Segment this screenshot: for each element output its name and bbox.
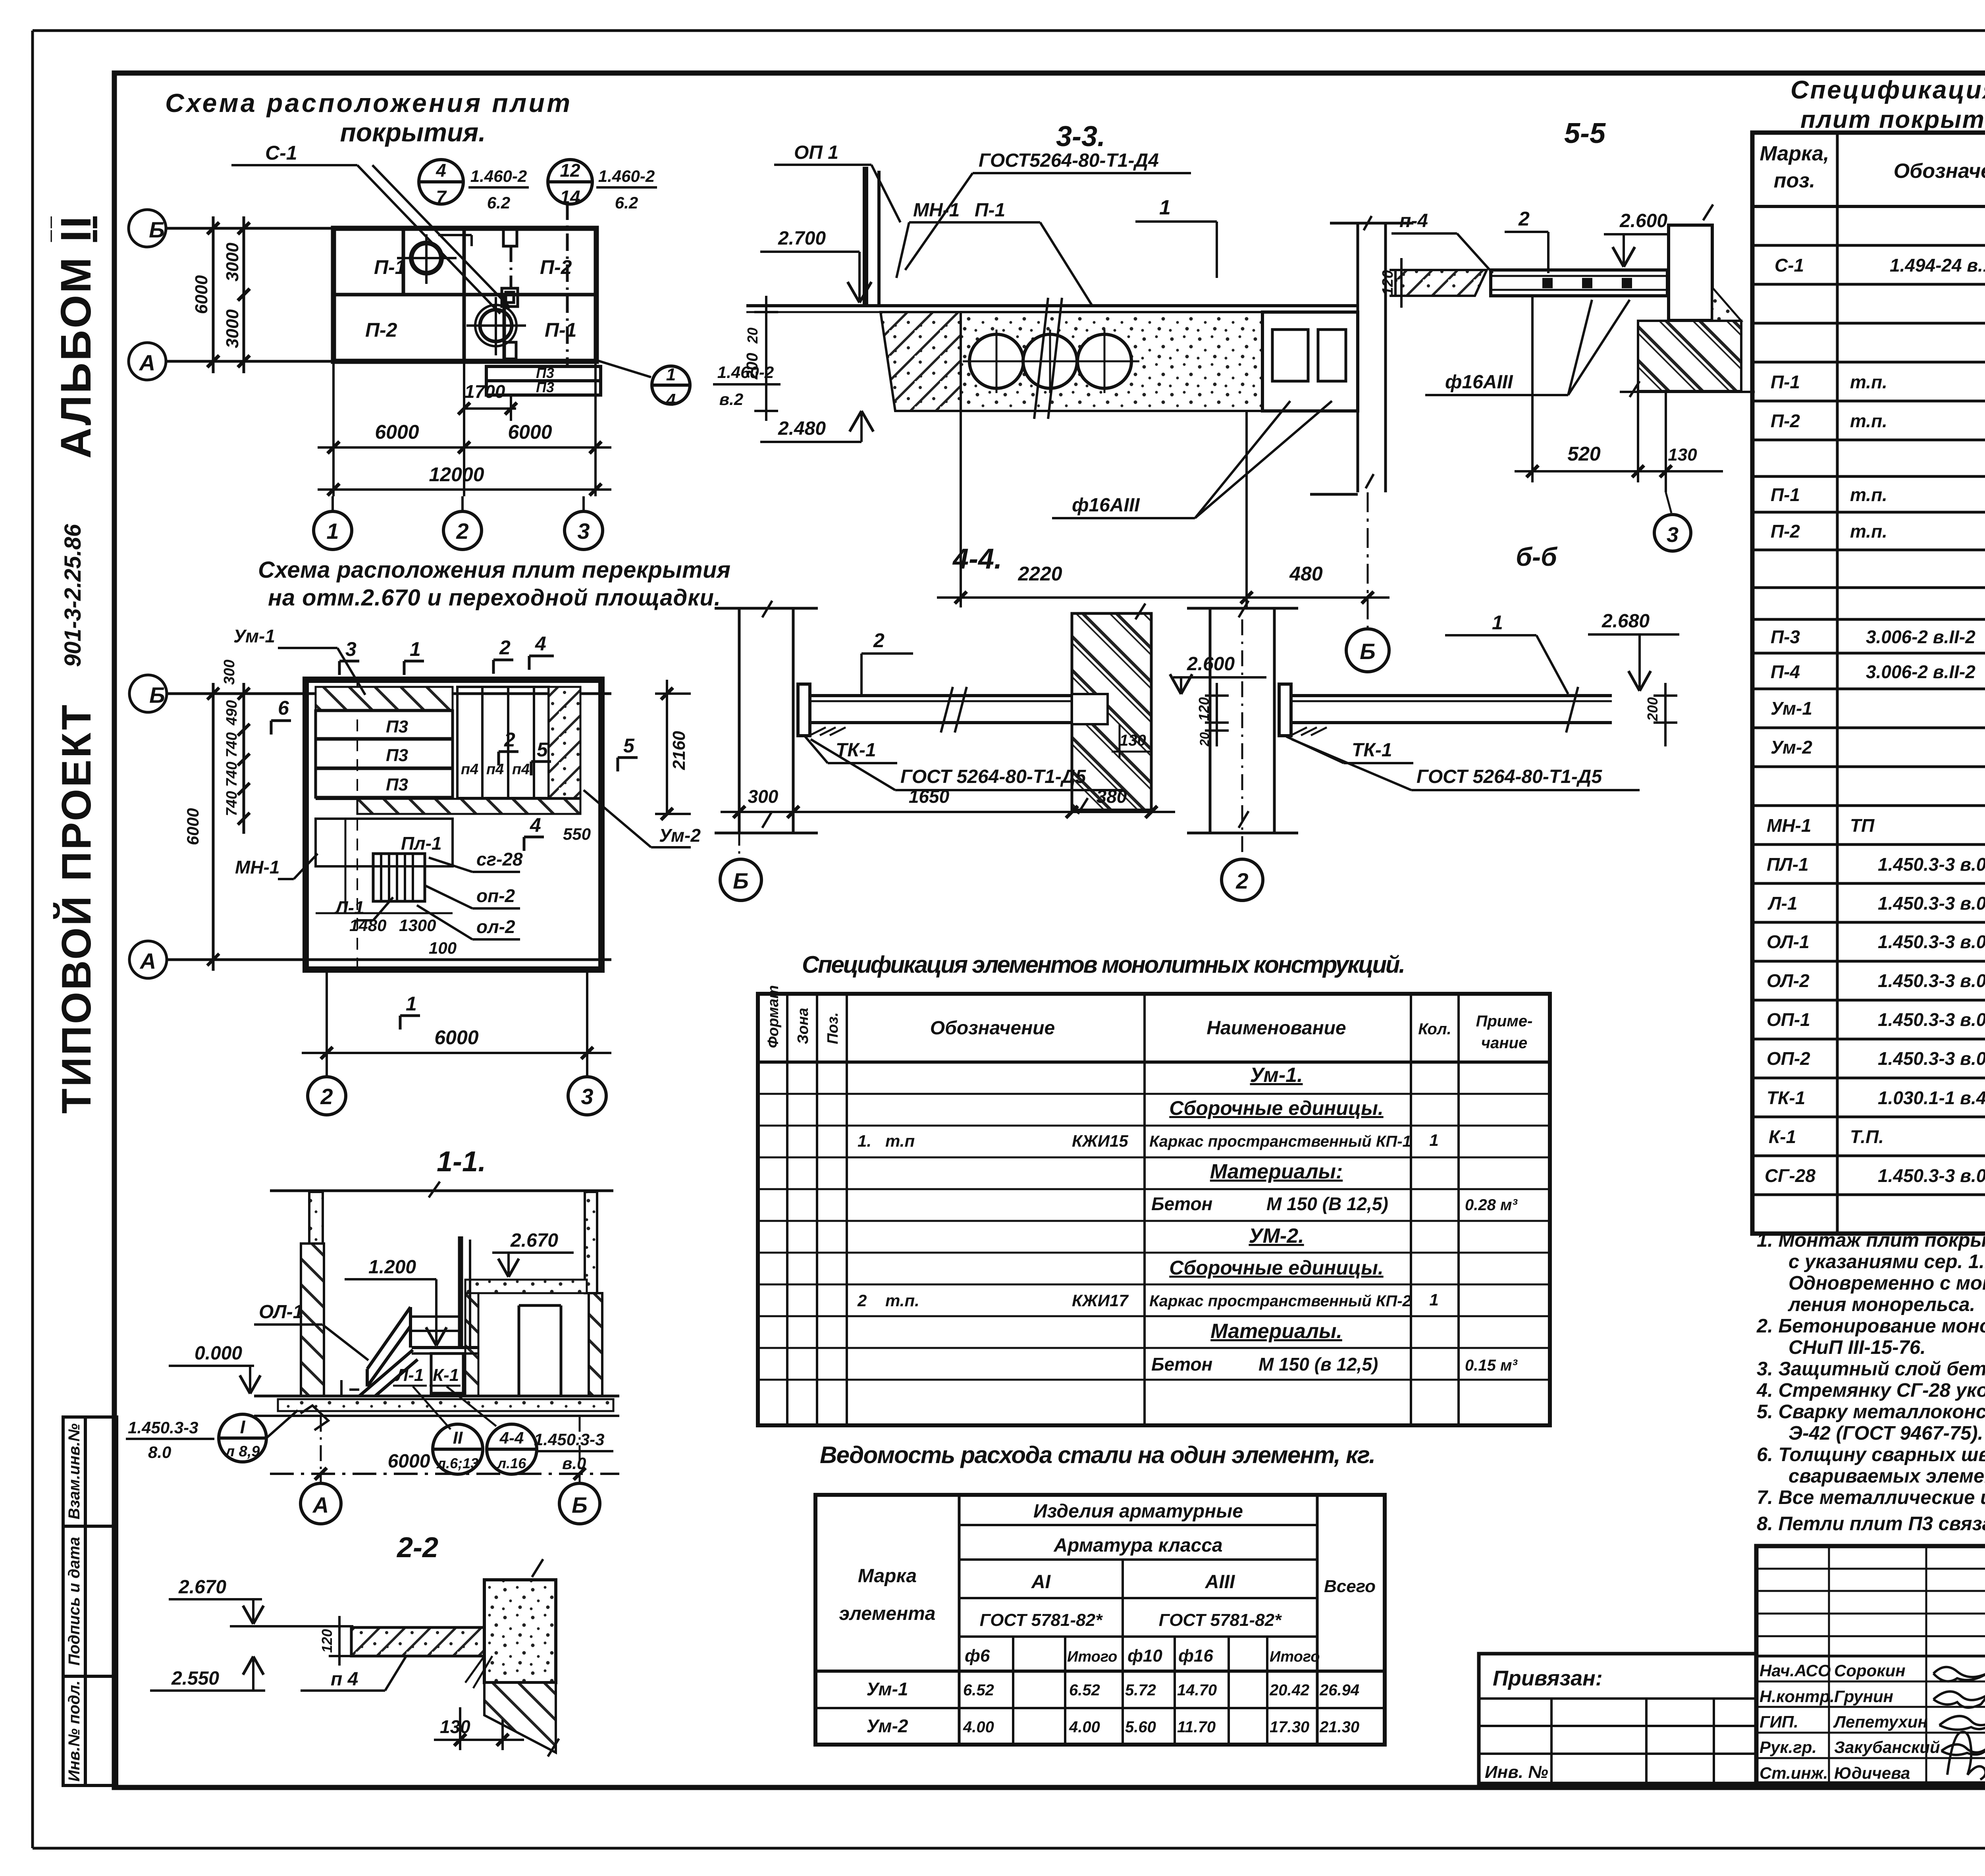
svg-text:5.72: 5.72 bbox=[1125, 1681, 1156, 1699]
svg-text:Материалы.: Материалы. bbox=[1210, 1320, 1342, 1343]
svg-text:1: 1 bbox=[1492, 611, 1503, 634]
svg-text:2: 2 bbox=[873, 629, 885, 652]
svg-text:1.460-2: 1.460-2 bbox=[598, 167, 655, 185]
svg-text:П-1: П-1 bbox=[374, 256, 406, 278]
svg-text:5: 5 bbox=[623, 735, 635, 757]
svg-text:1.450.3-3 в.0;1;2: 1.450.3-3 в.0;1;2 bbox=[1878, 1048, 1985, 1069]
svg-text:5.60: 5.60 bbox=[1125, 1718, 1156, 1736]
svg-text:740: 740 bbox=[224, 791, 240, 816]
svg-text:4: 4 bbox=[530, 814, 541, 836]
svg-text:П3: П3 bbox=[536, 379, 554, 395]
svg-text:1.450.3-3: 1.450.3-3 bbox=[534, 1430, 604, 1449]
svg-text:п-4: п-4 bbox=[1399, 210, 1428, 231]
svg-text:Б: Б bbox=[572, 1492, 588, 1517]
svg-text:покрытия.: покрытия. bbox=[340, 118, 486, 147]
svg-text:2: 2 bbox=[857, 1291, 867, 1310]
svg-text:12000: 12000 bbox=[429, 463, 484, 486]
svg-text:М 150 (в 12,5): М 150 (в 12,5) bbox=[1258, 1354, 1378, 1375]
svg-text:т.п.: т.п. bbox=[1850, 372, 1887, 392]
svg-text:4-4: 4-4 bbox=[499, 1429, 524, 1447]
svg-text:ОП-1: ОП-1 bbox=[1767, 1009, 1810, 1030]
svg-text:Лепетухин: Лепетухин bbox=[1833, 1712, 1928, 1731]
svg-text:т.п.: т.п. bbox=[885, 1291, 919, 1310]
svg-text:Итого: Итого bbox=[1067, 1648, 1117, 1665]
svg-text:1700: 1700 bbox=[464, 381, 505, 402]
svg-text:ф16АIII: ф16АIII bbox=[1445, 372, 1513, 393]
svg-text:6. Толщину сварных швов при: 6. Толщину сварных швов принимать по наи… bbox=[1757, 1444, 1985, 1465]
svg-text:1: 1 bbox=[326, 519, 339, 544]
svg-text:26.94: 26.94 bbox=[1319, 1681, 1359, 1699]
svg-text:Сборочные единицы.: Сборочные единицы. bbox=[1169, 1097, 1383, 1119]
svg-text:2.550: 2.550 bbox=[171, 1668, 219, 1689]
svg-text:6.2: 6.2 bbox=[615, 193, 638, 212]
svg-text:8. Петли плит П3 связать: 8. Петли плит П3 связать проволокой ⌀4мм… bbox=[1757, 1513, 1985, 1535]
svg-text:1650: 1650 bbox=[909, 786, 950, 807]
svg-text:2220: 2220 bbox=[1018, 563, 1062, 585]
svg-text:6000: 6000 bbox=[183, 808, 202, 845]
svg-text:6.52: 6.52 bbox=[963, 1681, 994, 1699]
svg-text:4-4.: 4-4. bbox=[952, 543, 1002, 575]
svg-text:С-1: С-1 bbox=[265, 142, 297, 164]
svg-text:ГОСТ5264-80-Т1-Д4: ГОСТ5264-80-Т1-Д4 bbox=[979, 150, 1159, 171]
svg-text:4.00: 4.00 bbox=[1069, 1718, 1100, 1736]
svg-text:П3: П3 bbox=[386, 775, 408, 794]
svg-text:КЖИ15: КЖИ15 bbox=[1072, 1132, 1128, 1150]
svg-text:Ум-2: Ум-2 bbox=[867, 1716, 908, 1736]
svg-text:Закубанский: Закубанский bbox=[1834, 1738, 1940, 1756]
svg-text:элемента: элемента bbox=[839, 1603, 936, 1624]
svg-text:I: I bbox=[240, 1417, 246, 1437]
svg-text:1: 1 bbox=[406, 993, 417, 1015]
svg-text:6.2: 6.2 bbox=[487, 193, 510, 212]
svg-text:1.450.3-3 в.0;1;2: 1.450.3-3 в.0;1;2 bbox=[1878, 931, 1985, 952]
svg-text:Ум-2: Ум-2 bbox=[1771, 737, 1812, 758]
svg-text:ф16АIII: ф16АIII bbox=[1072, 495, 1140, 516]
svg-text:Б: Б bbox=[1360, 639, 1376, 664]
svg-text:520: 520 bbox=[1567, 443, 1601, 465]
svg-text:2: 2 bbox=[456, 519, 468, 544]
svg-text:1.200: 1.200 bbox=[368, 1257, 416, 1278]
svg-text:3.006-2 в.II-2: 3.006-2 в.II-2 bbox=[1866, 661, 1975, 682]
svg-text:поз.: поз. bbox=[1774, 169, 1815, 192]
svg-text:4: 4 bbox=[535, 632, 546, 655]
svg-text:П-2: П-2 bbox=[1771, 521, 1800, 542]
svg-text:П3: П3 bbox=[536, 365, 554, 381]
svg-text:Ст.инж.: Ст.инж. bbox=[1760, 1764, 1828, 1782]
svg-text:ПЛ-1: ПЛ-1 bbox=[1767, 854, 1809, 875]
svg-text:0.28 м³: 0.28 м³ bbox=[1465, 1196, 1518, 1214]
svg-text:1: 1 bbox=[1159, 196, 1171, 219]
svg-text:ОЛ-1: ОЛ-1 bbox=[259, 1301, 303, 1323]
svg-text:ГИП.: ГИП. bbox=[1760, 1712, 1798, 1731]
svg-text:0.15 м³: 0.15 м³ bbox=[1465, 1357, 1518, 1374]
svg-text:2.480: 2.480 bbox=[778, 418, 826, 439]
svg-text:Схема расположения плит перек: Схема расположения плит перекрытия bbox=[258, 557, 730, 583]
svg-text:Инв.№ подл.: Инв.№ подл. bbox=[66, 1681, 83, 1782]
svg-text:2. Бетонирование монолитных: 2. Бетонирование монолитных участков про… bbox=[1756, 1315, 1985, 1337]
svg-text:Б: Б bbox=[733, 868, 749, 893]
svg-text:3: 3 bbox=[577, 519, 590, 544]
svg-text:200: 200 bbox=[744, 353, 761, 380]
svg-text:УМ-2.: УМ-2. bbox=[1249, 1224, 1304, 1247]
svg-text:КЖИ17: КЖИ17 bbox=[1072, 1291, 1129, 1310]
svg-text:1.: 1. bbox=[858, 1132, 871, 1150]
svg-text:Грунин: Грунин bbox=[1834, 1687, 1893, 1706]
svg-text:плит покрытия , перекрытия: плит покрытия , перекрытия и переходной … bbox=[1800, 106, 1985, 133]
svg-text:л 8,9: л 8,9 bbox=[224, 1443, 260, 1460]
svg-text:П-2: П-2 bbox=[1771, 411, 1800, 431]
svg-text:8.0: 8.0 bbox=[148, 1443, 171, 1461]
svg-text:20: 20 bbox=[744, 328, 761, 344]
svg-text:1: 1 bbox=[1429, 1290, 1438, 1309]
svg-text:490: 490 bbox=[224, 700, 240, 725]
svg-text:Взам.инв.№: Взам.инв.№ bbox=[66, 1423, 83, 1519]
svg-text:5: 5 bbox=[537, 738, 548, 761]
svg-text:П3: П3 bbox=[386, 717, 408, 737]
svg-text:1.494-24 в.1.: 1.494-24 в.1. bbox=[1890, 255, 1985, 276]
svg-text:П-1: П-1 bbox=[1771, 484, 1800, 505]
svg-text:480: 480 bbox=[1289, 563, 1323, 585]
svg-text:Марка,: Марка, bbox=[1760, 142, 1829, 165]
svg-text:0.000: 0.000 bbox=[195, 1343, 242, 1364]
svg-text:П-2: П-2 bbox=[365, 319, 397, 341]
svg-text:оп-2: оп-2 bbox=[476, 885, 515, 906]
svg-text:1.030.1-1 в.4-1: 1.030.1-1 в.4-1 bbox=[1878, 1087, 1985, 1108]
svg-text:ГОСТ 5781-82*: ГОСТ 5781-82* bbox=[980, 1610, 1103, 1630]
svg-text:Бетон: Бетон bbox=[1151, 1193, 1212, 1214]
svg-text:П-4: П-4 bbox=[1771, 661, 1800, 682]
svg-text:Б: Б bbox=[149, 683, 165, 708]
svg-text:2.680: 2.680 bbox=[1601, 611, 1650, 632]
svg-text:380: 380 bbox=[1097, 786, 1127, 807]
svg-text:Э-42 (ГОСТ 9467-75).: Э-42 (ГОСТ 9467-75). bbox=[1788, 1423, 1983, 1444]
svg-text:К-1: К-1 bbox=[433, 1365, 459, 1385]
svg-text:1: 1 bbox=[666, 365, 676, 384]
svg-text:6000: 6000 bbox=[192, 275, 211, 314]
svg-text:1.450.3-3 в.0.1: 1.450.3-3 в.0.1 bbox=[1878, 1165, 1985, 1186]
svg-text:Наименование: Наименование bbox=[1206, 1018, 1346, 1039]
svg-text:3.006-2 в.II-2: 3.006-2 в.II-2 bbox=[1866, 627, 1975, 647]
svg-text:300: 300 bbox=[748, 786, 779, 807]
svg-text:7: 7 bbox=[436, 187, 447, 207]
svg-text:Спецификация элементов к сх: Спецификация элементов к схемам располож… bbox=[1790, 75, 1985, 104]
svg-text:300: 300 bbox=[221, 659, 238, 684]
svg-text:Каркас пространственный КП-1: Каркас пространственный КП-1 bbox=[1149, 1133, 1411, 1150]
svg-text:Привязан:: Привязан: bbox=[1493, 1666, 1603, 1690]
svg-text:100: 100 bbox=[429, 939, 457, 957]
svg-text:Н.контр.: Н.контр. bbox=[1760, 1687, 1835, 1706]
svg-text:1: 1 bbox=[1429, 1131, 1438, 1149]
svg-text:1. Монтаж плит покрытия и: 1. Монтаж плит покрытия и перекрытия вес… bbox=[1757, 1230, 1985, 1251]
svg-text:ГОСТ 5781-82*: ГОСТ 5781-82* bbox=[1159, 1610, 1282, 1630]
svg-text:Б: Б bbox=[149, 217, 165, 242]
svg-text:п 4: п 4 bbox=[331, 1669, 358, 1690]
svg-text:Приме-: Приме- bbox=[1476, 1012, 1533, 1030]
svg-text:6000: 6000 bbox=[434, 1026, 478, 1049]
svg-text:1: 1 bbox=[410, 638, 421, 660]
svg-text:т.п.: т.п. bbox=[1850, 521, 1887, 542]
svg-text:СГ-28: СГ-28 bbox=[1765, 1165, 1815, 1186]
svg-text:т.п: т.п bbox=[885, 1132, 915, 1150]
svg-text:Т.П.: Т.П. bbox=[1850, 1126, 1884, 1147]
svg-text:5. Сварку металлоконструкций: 5. Сварку металлоконструкций производить… bbox=[1757, 1401, 1985, 1423]
svg-text:Ведомость расхода стали на: Ведомость расхода стали на один элемент,… bbox=[820, 1442, 1376, 1468]
svg-text:Марка: Марка bbox=[858, 1566, 917, 1587]
svg-text:ОЛ-2: ОЛ-2 bbox=[1767, 970, 1810, 991]
svg-text:Спецификация элементов монол: Спецификация элементов монолитных констр… bbox=[802, 951, 1405, 978]
svg-text:2.600: 2.600 bbox=[1619, 210, 1667, 231]
svg-text:4. Стремянку СГ-28 укоротить: 4. Стремянку СГ-28 укоротить по месту на… bbox=[1756, 1380, 1985, 1401]
svg-text:АI: АI bbox=[1031, 1571, 1051, 1593]
svg-text:Сорокин: Сорокин bbox=[1834, 1661, 1906, 1680]
svg-text:Материалы:: Материалы: bbox=[1210, 1160, 1343, 1183]
svg-text:ф10: ф10 bbox=[1127, 1646, 1162, 1666]
svg-text:Изделия арматурные: Изделия арматурные bbox=[1033, 1501, 1243, 1522]
svg-text:А: А bbox=[312, 1492, 329, 1517]
svg-text:М 150 (В 12,5): М 150 (В 12,5) bbox=[1266, 1193, 1388, 1214]
svg-text:Сборочные единицы.: Сборочные единицы. bbox=[1169, 1257, 1383, 1279]
svg-text:П3: П3 bbox=[386, 746, 408, 765]
svg-text:1.450.3-3: 1.450.3-3 bbox=[128, 1418, 198, 1437]
svg-text:ТК-1: ТК-1 bbox=[1767, 1087, 1805, 1108]
svg-text:6.52: 6.52 bbox=[1069, 1681, 1100, 1699]
svg-text:4.00: 4.00 bbox=[963, 1718, 994, 1736]
svg-text:ОП-2: ОП-2 bbox=[1767, 1048, 1810, 1069]
svg-text:2.670: 2.670 bbox=[178, 1577, 226, 1598]
svg-text:Л-1: Л-1 bbox=[395, 1365, 424, 1385]
svg-text:Ум-1: Ум-1 bbox=[233, 626, 275, 646]
svg-text:л.6;13: л.6;13 bbox=[436, 1455, 478, 1471]
svg-text:Одновременно с монтажом плит: Одновременно с монтажом плит заложить за… bbox=[1788, 1273, 1985, 1294]
svg-text:130: 130 bbox=[1120, 732, 1146, 749]
svg-text:2: 2 bbox=[1235, 868, 1248, 893]
svg-text:4: 4 bbox=[436, 160, 446, 181]
svg-text:п4: п4 bbox=[486, 761, 504, 778]
svg-text:2: 2 bbox=[504, 729, 515, 751]
svg-text:3: 3 bbox=[345, 638, 357, 660]
svg-text:ления монорельса.: ления монорельса. bbox=[1788, 1294, 1975, 1315]
svg-text:Рук.гр.: Рук.гр. bbox=[1760, 1738, 1817, 1756]
svg-text:Ум-2: Ум-2 bbox=[659, 825, 701, 846]
svg-text:ф6: ф6 bbox=[965, 1646, 990, 1666]
svg-text:3-3.: 3-3. bbox=[1056, 121, 1105, 152]
svg-text:1.450.3-3 в.0;2;2: 1.450.3-3 в.0;2;2 bbox=[1878, 1009, 1985, 1030]
svg-text:СНиП III-15-76.: СНиП III-15-76. bbox=[1788, 1337, 1926, 1358]
svg-text:чание: чание bbox=[1481, 1034, 1527, 1052]
svg-text:6000: 6000 bbox=[375, 421, 419, 443]
svg-text:Каркас пространственный КП-2: Каркас пространственный КП-2 bbox=[1149, 1292, 1411, 1310]
svg-text:740: 740 bbox=[224, 732, 240, 757]
svg-text:С-1: С-1 bbox=[1775, 255, 1804, 276]
svg-text:Инв. №: Инв. № bbox=[1485, 1762, 1548, 1782]
svg-text:Обозначение: Обозначение bbox=[1894, 160, 1985, 183]
svg-text:сг-28: сг-28 bbox=[476, 849, 523, 870]
svg-text:с указаниями сер. 1.141-1;сер: с указаниями сер. 1.141-1;сер.1.400-11;с… bbox=[1788, 1251, 1985, 1273]
svg-text:Формат: Формат bbox=[765, 985, 782, 1048]
svg-text:Арматура класса: Арматура класса bbox=[1053, 1535, 1222, 1556]
svg-text:Кол.: Кол. bbox=[1418, 1020, 1451, 1038]
svg-text:14.70: 14.70 bbox=[1177, 1681, 1217, 1699]
svg-text:П-3: П-3 bbox=[1771, 627, 1800, 647]
svg-text:МН-1: МН-1 bbox=[1767, 815, 1811, 836]
svg-text:Л-1: Л-1 bbox=[334, 897, 364, 918]
svg-text:14: 14 bbox=[560, 187, 580, 207]
svg-text:т.п.: т.п. bbox=[1850, 484, 1887, 505]
svg-text:5-5: 5-5 bbox=[1564, 118, 1606, 149]
svg-text:1.450.3-3 в.0;2: 1.450.3-3 в.0;2 bbox=[1878, 854, 1985, 875]
svg-text:Бетон: Бетон bbox=[1151, 1354, 1212, 1375]
svg-text:Поз.: Поз. bbox=[825, 1012, 841, 1045]
svg-text:л.16: л.16 bbox=[497, 1455, 526, 1471]
svg-text:Ум-1: Ум-1 bbox=[867, 1679, 908, 1699]
svg-text:ф16: ф16 bbox=[1178, 1646, 1213, 1666]
svg-text:б-б: б-б bbox=[1516, 542, 1558, 571]
svg-text:3: 3 bbox=[1667, 523, 1679, 547]
svg-text:21.30: 21.30 bbox=[1319, 1718, 1359, 1736]
svg-text:Пл-1: Пл-1 bbox=[401, 833, 442, 854]
svg-text:740: 740 bbox=[224, 762, 240, 787]
svg-text:т.п.: т.п. bbox=[1850, 411, 1887, 431]
svg-text:2.700: 2.700 bbox=[778, 228, 826, 249]
svg-text:ТК-1: ТК-1 bbox=[1352, 740, 1392, 761]
svg-text:Всего: Всего bbox=[1324, 1577, 1376, 1596]
svg-text:ОЛ-1: ОЛ-1 bbox=[1767, 931, 1810, 952]
svg-text:Итого: Итого bbox=[1270, 1648, 1320, 1665]
svg-text:ГОСТ 5264-80-Т1-Д5: ГОСТ 5264-80-Т1-Д5 bbox=[900, 766, 1086, 787]
svg-text:А: А bbox=[139, 949, 156, 974]
svg-text:4: 4 bbox=[666, 390, 676, 410]
svg-text:3: 3 bbox=[581, 1084, 593, 1109]
svg-text:П-1: П-1 bbox=[975, 200, 1005, 221]
svg-text:А: А bbox=[139, 350, 155, 375]
svg-text:в.2: в.2 bbox=[719, 390, 743, 409]
svg-text:II: II bbox=[453, 1428, 463, 1448]
svg-text:3. Защитный слой бетона в: 3. Защитный слой бетона в монолитных уча… bbox=[1757, 1358, 1985, 1380]
svg-text:К-1: К-1 bbox=[1769, 1126, 1796, 1147]
svg-text:МН-1: МН-1 bbox=[235, 857, 279, 877]
svg-text:2.670: 2.670 bbox=[510, 1230, 558, 1251]
svg-text:АIII: АIII bbox=[1205, 1571, 1235, 1593]
svg-text:550: 550 bbox=[563, 825, 591, 843]
svg-text:Ум-1: Ум-1 bbox=[1771, 698, 1812, 719]
svg-text:МН-1: МН-1 bbox=[913, 200, 960, 221]
svg-text:2160: 2160 bbox=[669, 731, 689, 770]
svg-text:130: 130 bbox=[1668, 445, 1697, 465]
svg-text:1-1.: 1-1. bbox=[437, 1146, 486, 1178]
svg-text:17.30: 17.30 bbox=[1270, 1718, 1309, 1736]
svg-text:ол-2: ол-2 bbox=[476, 916, 515, 937]
svg-text:Л-1: Л-1 bbox=[1767, 893, 1798, 914]
svg-text:2: 2 bbox=[320, 1084, 333, 1109]
svg-text:20.42: 20.42 bbox=[1269, 1681, 1309, 1699]
svg-text:2: 2 bbox=[499, 636, 511, 659]
svg-text:АЛЬБОМ II: АЛЬБОМ II bbox=[52, 216, 100, 459]
svg-text:11.70: 11.70 bbox=[1177, 1718, 1216, 1736]
svg-text:Юдичева: Юдичева bbox=[1834, 1764, 1910, 1782]
svg-text:1.450.3-3 в.0;2: 1.450.3-3 в.0;2 bbox=[1878, 893, 1985, 914]
svg-text:1480: 1480 bbox=[349, 916, 386, 935]
svg-text:901-3-2.25.86: 901-3-2.25.86 bbox=[60, 524, 86, 667]
svg-text:6000: 6000 bbox=[388, 1451, 430, 1472]
svg-text:3000: 3000 bbox=[223, 309, 242, 348]
svg-text:ТП: ТП bbox=[1850, 815, 1875, 836]
svg-text:1300: 1300 bbox=[399, 916, 436, 935]
svg-text:3000: 3000 bbox=[223, 243, 242, 281]
svg-text:6000: 6000 bbox=[508, 421, 552, 443]
svg-text:2: 2 bbox=[1518, 208, 1530, 230]
svg-text:П-1: П-1 bbox=[1771, 372, 1800, 392]
svg-text:6: 6 bbox=[278, 697, 289, 719]
svg-text:Ум-1.: Ум-1. bbox=[1250, 1064, 1303, 1087]
svg-text:свариваемых элементов.: свариваемых элементов. bbox=[1788, 1465, 1985, 1487]
svg-text:Зона: Зона bbox=[795, 1008, 811, 1044]
svg-text:2-2: 2-2 bbox=[396, 1532, 438, 1564]
svg-text:1.450.3-3 в.0;1;2: 1.450.3-3 в.0;1;2 bbox=[1878, 970, 1985, 991]
svg-text:Обозначение: Обозначение bbox=[930, 1018, 1055, 1039]
svg-text:п4: п4 bbox=[512, 761, 530, 778]
svg-text:1.460-2: 1.460-2 bbox=[470, 167, 527, 185]
svg-text:ТИПОВОЙ ПРОЕКТ: ТИПОВОЙ ПРОЕКТ bbox=[53, 705, 100, 1114]
svg-text:120: 120 bbox=[1380, 270, 1396, 295]
svg-text:ГОСТ 5264-80-Т1-Д5: ГОСТ 5264-80-Т1-Д5 bbox=[1416, 766, 1602, 787]
svg-text:П-1: П-1 bbox=[545, 319, 576, 341]
svg-text:7. Все металлические изделия: 7. Все металлические изделия окрасить кр… bbox=[1757, 1487, 1985, 1508]
svg-text:Подпись и дата: Подпись и дата bbox=[66, 1537, 83, 1666]
svg-text:на отм.2.670 и переходной пл: на отм.2.670 и переходной площадки. bbox=[268, 585, 721, 611]
svg-text:12: 12 bbox=[560, 160, 580, 181]
svg-text:п4: п4 bbox=[461, 761, 478, 778]
svg-text:ОП 1: ОП 1 bbox=[794, 142, 838, 163]
svg-text:200: 200 bbox=[1644, 697, 1661, 721]
svg-text:Нач.АСО: Нач.АСО bbox=[1760, 1661, 1831, 1680]
svg-text:120: 120 bbox=[319, 1629, 335, 1653]
